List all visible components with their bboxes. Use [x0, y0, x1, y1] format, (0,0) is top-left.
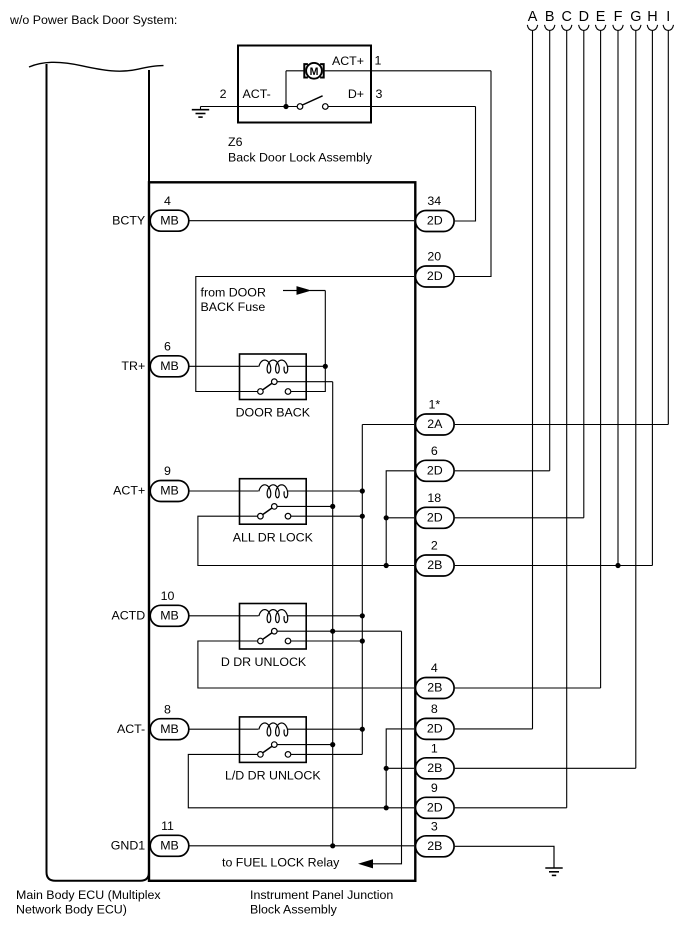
wire 2D-18 to node D — [455, 517, 584, 519]
svg-text:4: 4 — [431, 661, 438, 675]
svg-text:Z6: Z6 — [228, 135, 243, 149]
junction 2D-6 bus / 2B-2 — [384, 563, 389, 568]
wire ground bus vertical — [332, 382, 334, 846]
node A break squiggle — [527, 25, 537, 31]
wire actuator bus vertical — [361, 425, 363, 755]
junction 2D-8 bus / 2D-9 — [384, 805, 389, 810]
wire Z6 pin 3 to 2D-34 — [455, 107, 476, 222]
svg-text:18: 18 — [427, 491, 441, 505]
wire 2B-3 to ground — [455, 846, 554, 868]
wire node F vertical — [617, 31, 619, 566]
svg-text:MB: MB — [160, 722, 179, 736]
svg-text:6: 6 — [164, 340, 171, 354]
wire 2A-1* to actuator bus — [362, 424, 414, 426]
wire L/D DR UNLOCK pivot to ground bus — [277, 744, 333, 746]
svg-text:2: 2 — [220, 87, 227, 101]
svg-text:ACT+: ACT+ — [332, 54, 364, 68]
connector MB pin 6 (TR+) — [150, 356, 189, 377]
connector MB pin 10 (ACTD) — [150, 605, 189, 626]
svg-text:2B: 2B — [427, 681, 442, 695]
wire DOOR BACK coil to fuse node — [288, 365, 326, 367]
junction fuse feed / DOOR BACK coil — [323, 364, 328, 369]
wire D DR UNLOCK NC contact to 2B-4 — [198, 641, 414, 688]
wire FUEL LOCK bus vertical — [373, 631, 402, 864]
svg-text:34: 34 — [427, 194, 441, 208]
wire L/D DR UNLOCK NC contact to 2D-9 — [188, 754, 414, 807]
svg-text:G: G — [630, 9, 641, 25]
svg-text:MB: MB — [160, 609, 179, 623]
svg-text:2B: 2B — [427, 761, 442, 775]
wire motor feed — [286, 70, 305, 72]
connector MB pin 8 (ACT-) — [150, 719, 189, 740]
arrow from DOOR BACK fuse — [297, 286, 312, 295]
svg-text:1: 1 — [375, 54, 382, 68]
svg-text:2: 2 — [431, 539, 438, 553]
connector Z6 Back Door Lock Assembly box — [238, 46, 371, 123]
svg-text:3: 3 — [376, 87, 383, 101]
node C break squiggle — [562, 25, 572, 31]
svg-text:MB: MB — [160, 359, 179, 373]
svg-text:Network Body ECU): Network Body ECU) — [16, 903, 127, 917]
wire node H vertical — [651, 31, 653, 566]
wire node C vertical — [566, 31, 568, 808]
svg-text:20: 20 — [427, 250, 441, 264]
svg-text:MB: MB — [160, 213, 179, 227]
junction 2D-8 bus / 2B-1 — [384, 766, 389, 771]
connector 2B pin 4 — [416, 678, 455, 699]
relay D DR UNLOCK coil — [259, 610, 288, 623]
wire D DR UNLOCK NO contact to actuator bus — [291, 640, 363, 642]
svg-text:2A: 2A — [427, 417, 443, 431]
wire TR+ MB-6 to DOOR BACK coil — [189, 365, 258, 367]
relay DOOR BACK switch lever — [263, 383, 272, 390]
wire Z6 switch to pin 3 D+ — [328, 106, 475, 108]
junction ground bus / ALL pivot — [330, 504, 335, 509]
junction node F / 2B-2 wire — [615, 563, 620, 568]
wire Z6 pin 1 ACT+ to 2D-20 — [324, 70, 492, 72]
wire GND1 MB-11 to 2B-3 — [189, 845, 414, 847]
wire ACT- MB-8 to L/D DR UNLOCK coil — [189, 728, 258, 730]
svg-text:8: 8 — [431, 702, 438, 716]
svg-text:11: 11 — [161, 819, 174, 833]
svg-text:9: 9 — [164, 464, 171, 478]
node F break squiggle — [613, 25, 623, 31]
Main Body ECU (Multiplex Network Body ECU) box — [47, 64, 150, 881]
connector 2B pin 1 — [416, 758, 455, 779]
svg-text:Instrument Panel Junction: Instrument Panel Junction — [250, 888, 393, 902]
wire 2B-4 to node E — [455, 687, 601, 689]
svg-text:Block Assembly: Block Assembly — [250, 903, 338, 917]
svg-text:B: B — [545, 9, 555, 25]
Main Body ECU torn-top wavy edge — [29, 62, 164, 71]
svg-text:Back Door Lock Assembly: Back Door Lock Assembly — [228, 151, 373, 165]
wire Z6 internal junction to motor — [285, 71, 287, 107]
svg-text:C: C — [561, 9, 571, 25]
connector 2D pin 34 — [416, 211, 455, 232]
wire D DR UNLOCK pivot to FUEL LOCK bus — [277, 630, 401, 632]
wire DOOR BACK common pivot to ground bus — [277, 381, 333, 383]
svg-text:to FUEL LOCK Relay: to FUEL LOCK Relay — [222, 856, 340, 870]
connector 2D pin 20 — [416, 266, 455, 287]
svg-text:2B: 2B — [427, 839, 442, 853]
wire 2B-2 to nodes F and H — [455, 565, 652, 567]
wire 2A-1* to node I — [455, 424, 668, 426]
svg-text:D DR UNLOCK: D DR UNLOCK — [221, 655, 307, 669]
node E break squiggle — [595, 25, 605, 31]
svg-text:2B: 2B — [427, 558, 442, 572]
relay ALL DR LOCK switch lever — [263, 508, 272, 515]
junction actuator bus / D coil — [360, 613, 365, 618]
wire ALL DR LOCK NO contact to actuator bus — [291, 515, 363, 517]
junction ground bus / GND1 — [330, 843, 335, 848]
junction ground bus / D pivot — [330, 629, 335, 634]
relay D DR UNLOCK switch lever — [263, 633, 272, 640]
svg-text:M: M — [310, 66, 319, 78]
wire L/D DR UNLOCK coil to actuator bus — [288, 728, 363, 730]
relay DOOR BACK switch contacts — [258, 389, 264, 395]
connector 2D pin 18 — [416, 507, 455, 528]
relay L/D DR UNLOCK box — [240, 717, 307, 763]
junction actuator bus / L-D coil — [360, 727, 365, 732]
connector MB pin 4 (BCTY) — [150, 210, 189, 231]
wire from DOOR BACK fuse feed — [283, 290, 297, 292]
svg-text:ALL DR LOCK: ALL DR LOCK — [233, 530, 314, 544]
svg-text:ACT-: ACT- — [117, 722, 145, 736]
node B break squiggle — [545, 25, 555, 31]
wire node I vertical — [667, 31, 669, 425]
svg-text:L/D DR UNLOCK: L/D DR UNLOCK — [225, 769, 321, 783]
wire 2D-20 to DOOR BACK switch — [196, 277, 414, 392]
wire ACTD MB-10 to D DR UNLOCK coil — [189, 615, 258, 617]
wire ALL DR LOCK pivot to ground bus — [277, 505, 333, 507]
node H break squiggle — [647, 25, 657, 31]
connector MB pin 9 (ACT+) — [150, 481, 189, 502]
wire 2D-8 drop bus — [386, 729, 414, 808]
relay L/D DR UNLOCK switch contacts — [258, 752, 264, 758]
svg-text:8: 8 — [164, 702, 171, 716]
wire node D vertical — [583, 31, 585, 518]
svg-text:1: 1 — [431, 742, 438, 756]
wire ACT+ MB-9 to ALL DR LOCK coil — [189, 490, 258, 492]
node I break squiggle — [663, 25, 673, 31]
relay DOOR BACK coil — [259, 360, 288, 373]
connector 2D pin 8 — [416, 718, 455, 739]
svg-text:H: H — [647, 9, 657, 25]
relay L/D DR UNLOCK switch lever — [263, 746, 272, 753]
svg-text:GND1: GND1 — [111, 839, 146, 853]
junction actuator bus / ALL NO — [360, 514, 365, 519]
junction 2D-6 bus / 2D-18 — [384, 515, 389, 520]
svg-text:ACTD: ACTD — [111, 609, 145, 623]
svg-text:I: I — [666, 9, 670, 25]
svg-text:F: F — [614, 9, 623, 25]
relay ALL DR LOCK switch contacts — [258, 513, 264, 519]
svg-text:ACT+: ACT+ — [113, 484, 145, 498]
svg-text:ACT-: ACT- — [243, 87, 271, 101]
svg-text:6: 6 — [431, 444, 438, 458]
junction actuator bus / D NO — [360, 638, 365, 643]
wire 2B-1 stub — [386, 767, 414, 769]
wire 2D-8 to node A — [455, 728, 533, 730]
svg-text:E: E — [596, 9, 606, 25]
arrow to FUEL LOCK Relay — [358, 859, 373, 868]
svg-text:BCTY: BCTY — [112, 213, 145, 227]
wire 2D-6 drop bus — [386, 471, 414, 566]
switch (Z6 door position) — [297, 104, 303, 110]
connector MB pin 11 (GND1) — [150, 835, 189, 856]
svg-text:2D: 2D — [427, 801, 443, 815]
junction ground bus / L-D pivot — [330, 742, 335, 747]
relay DOOR BACK box — [240, 354, 307, 400]
relay D DR UNLOCK box — [240, 604, 307, 650]
wire node B vertical — [549, 31, 551, 471]
ground (Z6 pin 2) — [200, 107, 202, 110]
ground at 2B-3 — [553, 846, 555, 868]
svg-text:2D: 2D — [427, 722, 443, 736]
svg-text:MB: MB — [160, 839, 179, 853]
svg-text:10: 10 — [161, 589, 175, 603]
svg-text:A: A — [528, 9, 538, 25]
wire node A vertical — [532, 31, 534, 729]
connector 2B pin 3 — [416, 836, 455, 857]
wire ground to Z6 pin 2 (ACT-) — [201, 106, 298, 108]
wire 2D-9 to node C — [455, 807, 567, 809]
wire node G vertical — [635, 31, 637, 769]
relay ALL DR LOCK box — [240, 479, 307, 525]
connector 2D pin 6 — [416, 460, 455, 481]
node G break squiggle — [631, 25, 641, 31]
relay ALL DR LOCK coil — [259, 485, 288, 498]
node D break squiggle — [579, 25, 589, 31]
wire L/D DR UNLOCK NO contact to actuator bus — [291, 753, 363, 755]
svg-text:w/o Power Back Door System:: w/o Power Back Door System: — [9, 13, 177, 27]
svg-text:from DOOR: from DOOR — [201, 286, 266, 300]
svg-text:BACK Fuse: BACK Fuse — [201, 300, 266, 314]
svg-text:2D: 2D — [427, 214, 443, 228]
junction Z6 internal node — [283, 104, 288, 109]
motor M1 door lock actuator — [304, 64, 308, 77]
wire D DR UNLOCK coil to actuator bus — [288, 615, 363, 617]
wire ALL DR LOCK coil to actuator bus — [288, 490, 363, 492]
svg-text:9: 9 — [431, 781, 438, 795]
Instrument Panel Junction Block Assembly box — [149, 182, 415, 881]
wire 2D-6 to node B — [455, 470, 550, 472]
svg-text:D+: D+ — [348, 87, 364, 101]
svg-text:2D: 2D — [427, 511, 443, 525]
svg-text:4: 4 — [164, 194, 171, 208]
wire BCTY MB-4 to 2D-34 — [189, 220, 414, 222]
junction actuator bus / ALL coil — [360, 488, 365, 493]
svg-text:TR+: TR+ — [121, 359, 145, 373]
svg-text:2D: 2D — [427, 464, 443, 478]
wire 2D-18 stub — [386, 517, 414, 519]
wire node E vertical — [600, 31, 602, 688]
svg-text:D: D — [579, 9, 589, 25]
relay L/D DR UNLOCK coil — [259, 723, 288, 736]
svg-text:Main Body ECU (Multiplex: Main Body ECU (Multiplex — [16, 888, 161, 902]
wire ALL DR LOCK NC contact to 2B-2 — [198, 516, 414, 565]
connector 2B pin 2 — [416, 555, 455, 576]
svg-text:3: 3 — [431, 820, 438, 834]
svg-text:2D: 2D — [427, 269, 443, 283]
relay D DR UNLOCK switch contacts — [258, 638, 264, 644]
svg-text:1*: 1* — [428, 398, 440, 412]
connector 2D pin 9 — [416, 797, 455, 818]
svg-text:MB: MB — [160, 484, 179, 498]
wire 2B-1 to node G — [455, 767, 636, 769]
svg-text:DOOR BACK: DOOR BACK — [236, 406, 311, 420]
connector 2A pin 1* — [416, 414, 455, 435]
